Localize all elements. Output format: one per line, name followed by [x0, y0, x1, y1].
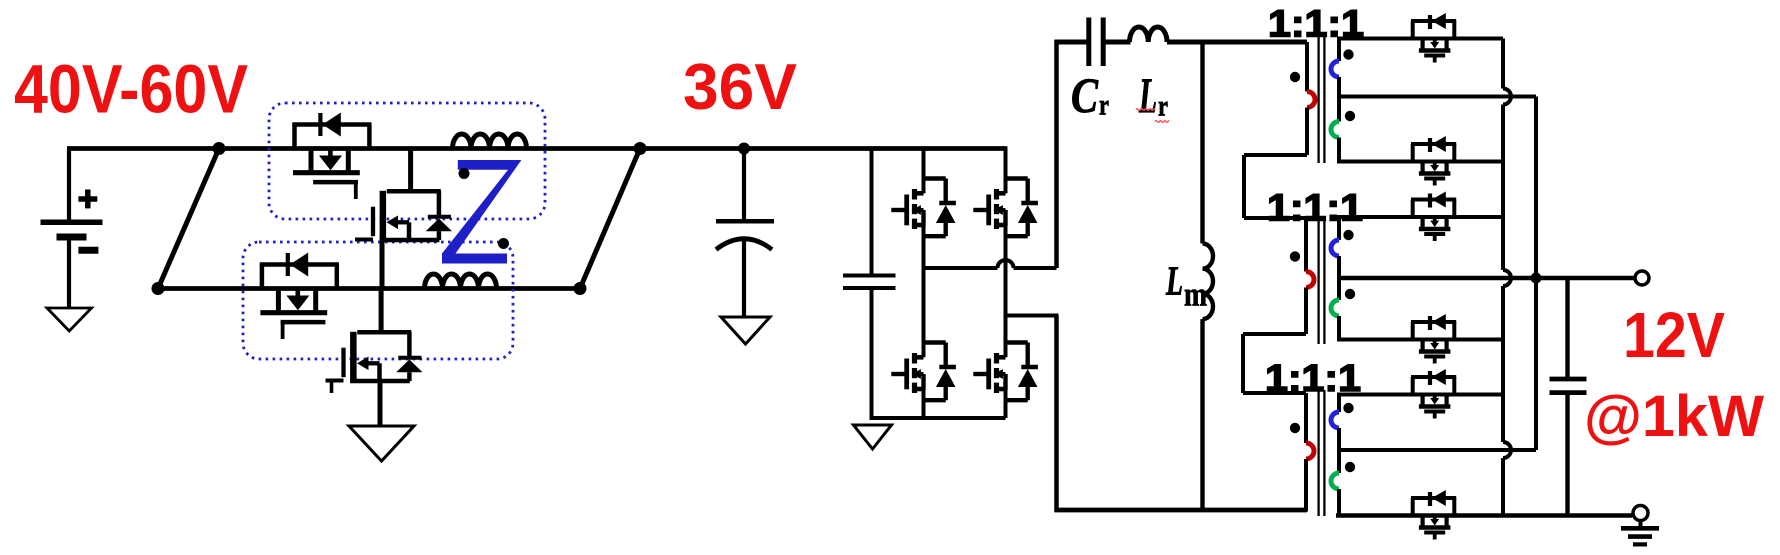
transistor SR5 (sync rect)	[1411, 369, 1456, 419]
terminal output negative	[1633, 506, 1648, 521]
inductor L1 (phase 1)	[453, 134, 527, 149]
polarity dot T3 secondary-2	[1345, 462, 1355, 472]
ground (bridge)	[854, 425, 892, 449]
T3 secondary-1 winding arc (blue)	[1331, 412, 1339, 428]
wire T3 center-tap rail	[1337, 448, 1536, 452]
svg-text:r: r	[1099, 89, 1109, 122]
T1 secondary center leads	[1337, 77, 1341, 122]
wire primary chain T2-T3	[1243, 334, 1306, 393]
wire Q4 source to ground	[378, 382, 383, 426]
wire bridge left leg	[922, 149, 926, 419]
transformer T2 core	[1319, 221, 1325, 344]
T2 primary winding arc	[1306, 272, 1314, 288]
transistor Q3 (phase-2 high-side MOSFET with diode)	[260, 253, 339, 340]
transistor Q4 (phase-2 low-side MOSFET with diode)	[326, 290, 423, 382]
T3 secondary-2 winding lead	[1337, 489, 1341, 516]
battery V1 plus sign	[78, 190, 97, 209]
output power label @1kW	[1584, 384, 1764, 449]
T1 secondary-1 winding arc (blue)	[1331, 61, 1339, 77]
svg-text:L: L	[1138, 67, 1157, 123]
wire tank top rail (right)	[1167, 40, 1307, 45]
inductor L2 (phase 2)	[425, 274, 497, 289]
polarity dot T1 secondary-2	[1345, 111, 1355, 121]
T1 primary lower lead	[1244, 108, 1307, 156]
wire bridge output B	[1006, 314, 1059, 318]
wire primary chain T1-T2	[1244, 155, 1306, 218]
label Lr	[1138, 67, 1168, 123]
wire T1 center-tap rail	[1337, 95, 1536, 99]
wire hop (bus over T1 center rail)	[1503, 89, 1511, 105]
T2 secondary-1 winding lead	[1337, 217, 1341, 240]
output voltage label 12V	[1623, 299, 1725, 371]
node A' (input, bottom)	[152, 282, 165, 295]
inductor Lr	[1130, 27, 1168, 42]
wire rect-2 rail	[1337, 160, 1503, 164]
wire output positive rail	[1337, 276, 1636, 280]
node B (36V, top)	[634, 142, 647, 155]
polarity dot T2 secondary-2	[1345, 289, 1355, 299]
svg-text:1:1:1: 1:1:1	[1267, 188, 1363, 230]
transformer T2 ratio label 1:1:1	[1267, 188, 1363, 230]
capacitor C2 plates	[843, 276, 896, 289]
svg-text:C: C	[1071, 67, 1099, 123]
wire Q4 gate tail	[330, 380, 334, 394]
transistor Q6 (bridge top-right)	[973, 179, 1038, 237]
wire Lm branch upper	[1200, 42, 1204, 244]
wire top input rail	[67, 146, 1006, 151]
wire hop (bus over T3 center rail)	[1503, 442, 1511, 458]
transistor Q8 (bridge bottom-right)	[973, 343, 1038, 401]
transformer T1 core	[1319, 36, 1325, 163]
T1 primary winding arc	[1307, 92, 1315, 108]
transistor SR1 (sync rect)	[1411, 13, 1456, 63]
T1 primary winding lead	[1305, 42, 1309, 92]
spellcheck squiggle under Lr	[1136, 109, 1169, 123]
wire bridge right leg	[1004, 146, 1008, 418]
ground (36V bus)	[721, 317, 770, 344]
wire Lm branch lower	[1200, 319, 1204, 511]
input voltage label 40V-60V	[14, 51, 248, 128]
wire tank top rail	[1055, 40, 1131, 45]
T3 secondary-1 winding lead	[1337, 395, 1341, 413]
transistor Q1 (phase-1 high-side MOSFET with diode)	[292, 113, 371, 200]
battery V1 negative lead	[67, 241, 71, 309]
polarity dot T3 primary	[1290, 423, 1300, 433]
capacitor Cout upper lead	[1565, 278, 1569, 377]
polarity dot T2 primary	[1290, 251, 1300, 261]
earth ground (output)	[1621, 521, 1659, 545]
wire hop (bus over output rail)	[1503, 270, 1511, 286]
wire rect-5 rail	[1337, 393, 1503, 397]
polarity dot (phase-1 winding)	[459, 168, 470, 179]
svg-text:@1kW: @1kW	[1584, 384, 1764, 449]
polarity dot T3 secondary-1	[1343, 403, 1353, 413]
transistor Q2 (phase-1 low-side MOSFET with diode)	[355, 149, 452, 241]
transformer T3 core	[1319, 390, 1325, 516]
T2 primary winding lead	[1304, 218, 1308, 272]
transistor SR2 (sync rect)	[1411, 136, 1456, 186]
T3 secondary center leads	[1337, 428, 1341, 473]
label Cr	[1071, 67, 1109, 123]
capacitor C1 plates	[716, 221, 774, 249]
T2 secondary-2 winding arc (green)	[1331, 300, 1339, 316]
capacitor C2 lower lead	[870, 290, 874, 420]
coupled-inductor Z symbol	[442, 160, 521, 264]
inductor Lm	[1203, 244, 1214, 320]
T3 secondary-2 winding arc (green)	[1331, 473, 1339, 489]
polarity dot T2 secondary-1	[1343, 230, 1353, 240]
T2 secondary-2 winding lead	[1337, 316, 1341, 340]
capacitor C1 lower lead	[742, 239, 746, 318]
ground (phase-2 low-side)	[349, 426, 414, 461]
capacitor Cr plates	[1089, 18, 1103, 67]
svg-text:12V: 12V	[1623, 299, 1725, 371]
battery V1 plates	[41, 222, 103, 237]
svg-text:m: m	[1184, 277, 1207, 314]
T1 secondary-2 winding lead	[1337, 138, 1341, 162]
transistor Q7 (bridge bottom-left)	[891, 343, 956, 401]
T3 primary winding arc	[1306, 443, 1314, 459]
T3 primary winding lead	[1304, 393, 1308, 443]
wire Q2 source to lower rail	[380, 241, 385, 289]
wire tank bottom rail	[1055, 508, 1308, 513]
label Lm	[1165, 258, 1207, 314]
wire bridge output A	[924, 266, 1057, 270]
transformer T1 ratio label 1:1:1	[1268, 4, 1364, 46]
transistor SR6 (sync rect)	[1411, 490, 1456, 540]
svg-text:L: L	[1165, 258, 1183, 304]
node 36V bus	[738, 143, 750, 155]
wire rect-4 rail	[1337, 338, 1503, 342]
wire rect-1 rail	[1337, 37, 1503, 41]
svg-text:r: r	[1158, 90, 1168, 123]
wire rect-3 rail	[1337, 215, 1503, 219]
bus voltage label 36V	[683, 50, 797, 123]
polarity dot T1 secondary-1	[1343, 49, 1353, 59]
svg-text:36V: 36V	[683, 50, 797, 123]
transistor SR4 (sync rect)	[1411, 314, 1456, 364]
dotted enclosure phase-2 switch cell	[243, 242, 513, 359]
T1 secondary-1 winding lead	[1337, 39, 1341, 62]
capacitor C2 (bridge input) upper lead	[870, 149, 874, 274]
T2 primary lower lead	[1243, 288, 1306, 335]
transformer T3 ratio label 1:1:1	[1265, 358, 1361, 400]
T2 secondary center leads	[1337, 256, 1341, 300]
T2 secondary-1 winding arc (blue)	[1331, 240, 1339, 256]
node A (input, top)	[213, 142, 226, 155]
wire tank left vertical (lower)	[1054, 316, 1059, 513]
polarity dot T1 primary	[1290, 72, 1300, 82]
polarity dot (phase-2 winding)	[498, 238, 509, 249]
transistor SR3 (sync rect)	[1411, 192, 1456, 242]
wire rectifier common bus	[1501, 39, 1505, 516]
node B' (phase-2 out)	[574, 282, 587, 295]
battery V1 positive lead	[67, 149, 71, 220]
battery V1 minus sign	[78, 247, 98, 254]
wire lower phase rail	[158, 286, 580, 291]
wire center-tap bus	[1534, 97, 1538, 451]
wire hop (output A over right leg)	[998, 260, 1014, 268]
terminal output positive	[1635, 271, 1649, 285]
wire diagonal output crossover	[580, 149, 640, 289]
wire diagonal input crossover	[158, 149, 219, 289]
capacitor Cout lower lead	[1565, 395, 1569, 516]
T3 primary lower lead	[1304, 459, 1308, 512]
transistor Q5 (bridge top-left)	[891, 179, 956, 237]
dotted enclosure phase-1 switch cell	[269, 103, 545, 219]
wire tank left vertical (upper)	[1054, 40, 1059, 268]
ground (battery)	[47, 308, 92, 331]
capacitor Cout plates	[1550, 379, 1587, 393]
svg-text:40V-60V: 40V-60V	[14, 51, 248, 128]
wire bridge bottom rail	[872, 416, 1006, 420]
wire output bottom rail	[1336, 513, 1632, 517]
T1 secondary-2 winding arc (green)	[1331, 122, 1339, 138]
capacitor C1 (36V bus) lead	[742, 149, 746, 220]
node center-tap bus / output rail	[1531, 273, 1542, 284]
